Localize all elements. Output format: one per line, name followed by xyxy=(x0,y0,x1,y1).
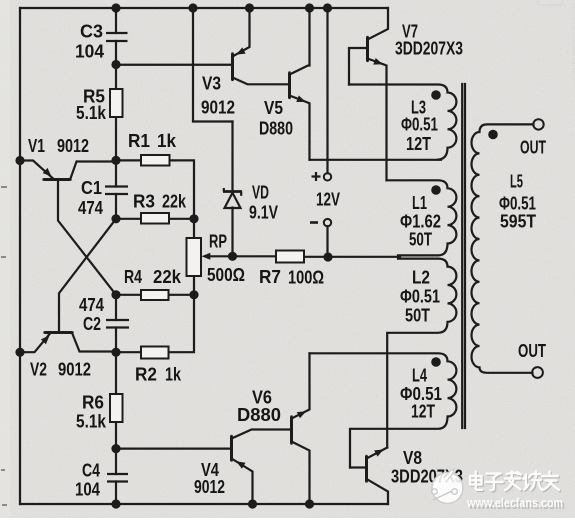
svg-text:100Ω: 100Ω xyxy=(288,268,324,288)
svg-text:500Ω: 500Ω xyxy=(207,265,245,285)
svg-text:www.elecfans.com: www.elecfans.com xyxy=(466,495,563,510)
svg-text:9012: 9012 xyxy=(194,477,225,497)
svg-text:R4: R4 xyxy=(124,267,142,287)
svg-text:Φ0.51: Φ0.51 xyxy=(401,115,438,135)
svg-text:C2: C2 xyxy=(83,314,101,334)
svg-text:R2: R2 xyxy=(135,365,157,385)
svg-text:50T: 50T xyxy=(409,230,432,250)
svg-text:104: 104 xyxy=(75,480,100,500)
svg-text:5.1k: 5.1k xyxy=(76,103,107,123)
svg-text:R6: R6 xyxy=(82,393,104,413)
svg-text:12T: 12T xyxy=(406,134,431,154)
svg-text:22k: 22k xyxy=(153,267,182,287)
svg-text:9012: 9012 xyxy=(201,98,235,118)
svg-text:L1: L1 xyxy=(412,193,427,213)
svg-text:50T: 50T xyxy=(405,306,430,326)
svg-text:12V: 12V xyxy=(316,190,340,210)
svg-text:D880: D880 xyxy=(259,119,293,139)
svg-text:D880: D880 xyxy=(237,405,281,425)
svg-text:V3: V3 xyxy=(202,74,221,94)
svg-text:1k: 1k xyxy=(165,365,182,385)
svg-text:V2: V2 xyxy=(30,360,47,380)
svg-text:5.1k: 5.1k xyxy=(76,412,107,432)
svg-text:22k: 22k xyxy=(162,192,187,212)
svg-text:www.elecfans.com: www.elecfans.com xyxy=(569,1,575,87)
svg-text:9012: 9012 xyxy=(58,360,91,380)
svg-text:9012: 9012 xyxy=(57,136,89,156)
svg-text:Φ1.62: Φ1.62 xyxy=(400,212,441,232)
svg-text:OUT: OUT xyxy=(520,138,546,158)
svg-text:595T: 595T xyxy=(500,212,536,232)
svg-text:C3: C3 xyxy=(80,22,103,42)
svg-text:C4: C4 xyxy=(82,461,100,481)
svg-text:474: 474 xyxy=(79,295,104,315)
svg-text:L2: L2 xyxy=(412,268,430,288)
svg-text:Φ0.51: Φ0.51 xyxy=(400,287,440,307)
svg-text:L4: L4 xyxy=(412,366,427,386)
svg-text:9.1V: 9.1V xyxy=(249,203,278,223)
svg-text:R3: R3 xyxy=(133,192,155,212)
svg-text:RP: RP xyxy=(209,232,227,252)
svg-text:474: 474 xyxy=(78,198,103,218)
svg-text:12T: 12T xyxy=(411,402,435,422)
svg-text:V8: V8 xyxy=(403,448,422,468)
svg-text:3DD207X3: 3DD207X3 xyxy=(395,39,463,59)
svg-text:VD: VD xyxy=(252,183,269,203)
svg-text:V5: V5 xyxy=(264,98,283,118)
svg-text:104: 104 xyxy=(75,42,104,62)
svg-text:1k: 1k xyxy=(157,131,177,151)
svg-text:Φ0.51: Φ0.51 xyxy=(499,194,536,214)
svg-text:R1: R1 xyxy=(128,131,150,151)
svg-text:L5: L5 xyxy=(510,172,523,192)
svg-text:V1: V1 xyxy=(28,136,45,156)
svg-text:R7: R7 xyxy=(259,267,281,287)
svg-text:OUT: OUT xyxy=(518,341,546,361)
svg-text:C1: C1 xyxy=(81,178,102,198)
